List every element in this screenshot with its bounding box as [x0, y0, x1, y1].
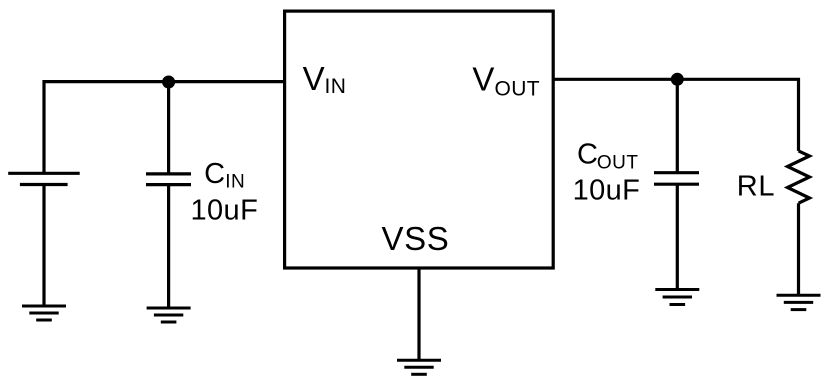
pin label VSS: [382, 220, 450, 257]
wire: junction down to COUT: [676, 79, 679, 173]
svg-text:IN: IN: [225, 172, 245, 193]
svg-text:V: V: [303, 60, 325, 97]
label COUT: [577, 138, 639, 173]
svg-text:OUT: OUT: [495, 77, 541, 100]
pin label VIN: [303, 60, 347, 98]
wire: input net horizontal (battery to VIN pin): [44, 82, 285, 174]
label CIN: [204, 158, 245, 193]
capacitor CIN: [146, 174, 191, 185]
svg-text:V: V: [472, 61, 494, 98]
ground (RL): [777, 295, 821, 309]
svg-text:10uF: 10uF: [191, 195, 259, 227]
label 10uF (input cap value): [191, 195, 259, 227]
pin label VOUT: [472, 61, 540, 101]
label RL: [737, 171, 776, 203]
wire: RL to ground: [797, 203, 800, 295]
svg-text:10uF: 10uF: [573, 174, 641, 206]
wire: output net horizontal (VOUT pin to load): [553, 79, 798, 151]
ground (COUT): [655, 290, 699, 305]
capacitor COUT: [654, 173, 699, 185]
node: input junction dot: [162, 76, 175, 89]
ground (CIN): [147, 308, 191, 322]
wire: CIN to ground: [167, 185, 170, 308]
battery B1: [8, 173, 80, 184]
ground (battery): [22, 306, 66, 320]
svg-text:RL: RL: [737, 171, 776, 203]
svg-text:VSS: VSS: [382, 220, 450, 257]
svg-text:OUT: OUT: [597, 152, 639, 173]
regulator U1 body: [285, 11, 554, 268]
ground (VSS): [397, 360, 441, 374]
wire: junction down to CIN: [167, 82, 170, 174]
svg-text:C: C: [577, 138, 598, 170]
svg-text:C: C: [204, 158, 225, 190]
wire: battery negative to ground: [42, 185, 45, 307]
node: output junction dot: [671, 73, 684, 86]
wire: COUT to ground: [676, 184, 679, 289]
resistor RL zigzag: [788, 151, 810, 203]
wire: VSS pin to ground: [417, 268, 420, 360]
svg-text:IN: IN: [325, 75, 347, 98]
label 10uF (output cap value): [573, 174, 641, 206]
